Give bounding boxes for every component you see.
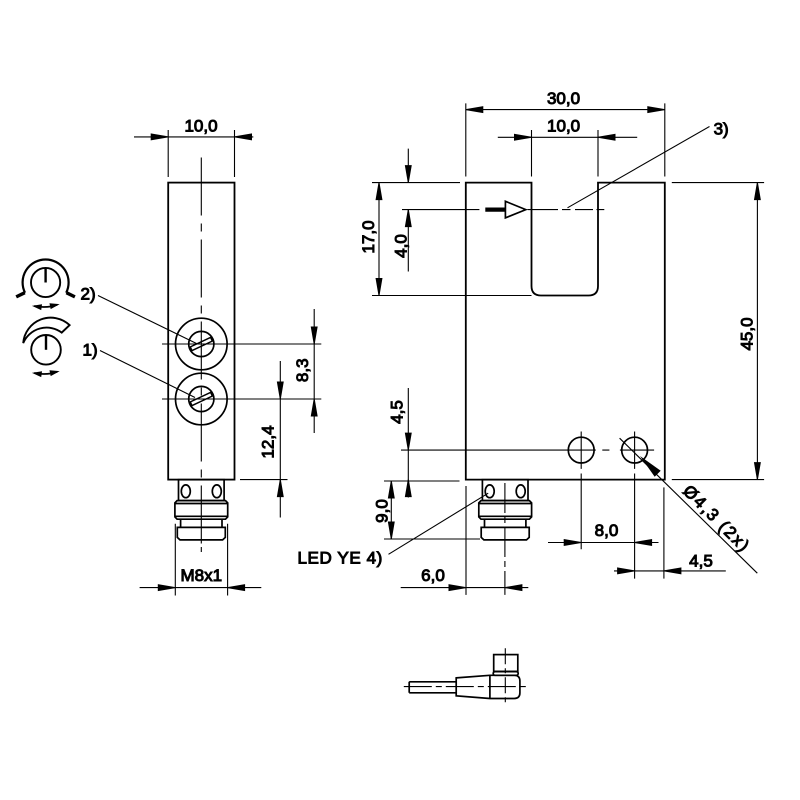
svg-text:Ø4,3 (2x): Ø4,3 (2x) xyxy=(679,481,754,556)
svg-text:4,5: 4,5 xyxy=(689,551,713,570)
svg-text:10,0: 10,0 xyxy=(547,117,580,136)
svg-text:17,0: 17,0 xyxy=(359,220,378,253)
svg-text:12,4: 12,4 xyxy=(259,425,278,458)
svg-text:8,3: 8,3 xyxy=(293,358,312,382)
svg-text:30,0: 30,0 xyxy=(547,89,580,108)
svg-text:3): 3) xyxy=(714,120,729,139)
svg-text:2): 2) xyxy=(81,285,96,304)
svg-text:45,0: 45,0 xyxy=(737,317,756,350)
svg-text:LED YE 4): LED YE 4) xyxy=(298,549,383,568)
svg-text:M8x1: M8x1 xyxy=(181,566,223,585)
svg-text:10,0: 10,0 xyxy=(184,117,217,136)
svg-text:9,0: 9,0 xyxy=(372,499,391,523)
svg-text:6,0: 6,0 xyxy=(421,566,445,585)
svg-text:4,5: 4,5 xyxy=(388,400,407,424)
svg-text:1): 1) xyxy=(83,341,98,360)
svg-text:4,0: 4,0 xyxy=(392,234,411,258)
svg-text:8,0: 8,0 xyxy=(595,521,619,540)
